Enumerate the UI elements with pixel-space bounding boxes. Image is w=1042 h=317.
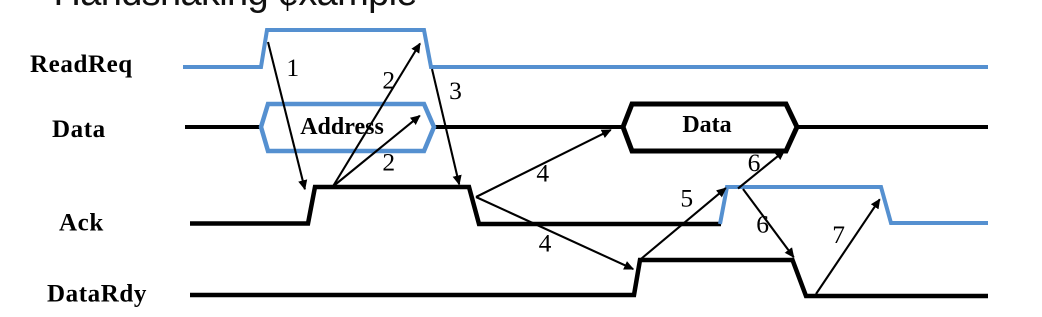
svg-text:6: 6	[756, 210, 769, 239]
DataRdy waveform	[190, 260, 988, 296]
arrow 6 upper	[738, 151, 784, 189]
svg-text:4: 4	[539, 229, 552, 258]
arrow 4 upper	[476, 130, 611, 197]
svg-text:7: 7	[832, 220, 845, 249]
arrow 2 upper	[334, 44, 421, 186]
svg-text:Data: Data	[52, 116, 106, 143]
arrow 6 lower	[743, 189, 794, 257]
arrow 7	[816, 199, 880, 294]
bus hexagon Data (black)	[623, 104, 797, 151]
arrow 4 lower	[476, 197, 633, 269]
svg-text:1: 1	[286, 53, 299, 82]
svg-text:3: 3	[449, 76, 462, 105]
svg-text:2: 2	[382, 148, 395, 177]
Ack waveform black part	[190, 187, 721, 224]
arrow 2 lower	[334, 116, 420, 186]
svg-text:5: 5	[680, 184, 693, 213]
svg-text:4: 4	[536, 159, 549, 188]
svg-text:Handshaking example: Handshaking example	[54, 0, 418, 14]
Data baseline wire right	[796, 125, 988, 129]
Data baseline wire middle	[433, 125, 624, 129]
arrow 1	[268, 42, 305, 189]
svg-text:Ack: Ack	[59, 210, 104, 237]
svg-text:ReadReq: ReadReq	[30, 51, 133, 78]
svg-text:Address: Address	[300, 114, 384, 140]
Data baseline wire left	[185, 125, 262, 129]
bus hexagon Address (blue)	[261, 104, 434, 151]
svg-text:6: 6	[748, 148, 761, 177]
Ack waveform blue part	[720, 187, 988, 224]
svg-text:Data: Data	[682, 112, 731, 138]
text caret in title	[287, 0, 289, 11]
ReadReq waveform (blue)	[183, 30, 988, 67]
svg-text:2: 2	[382, 66, 395, 95]
arrow 5	[642, 188, 726, 258]
arrow 3	[432, 69, 459, 184]
svg-text:DataRdy: DataRdy	[47, 281, 147, 308]
